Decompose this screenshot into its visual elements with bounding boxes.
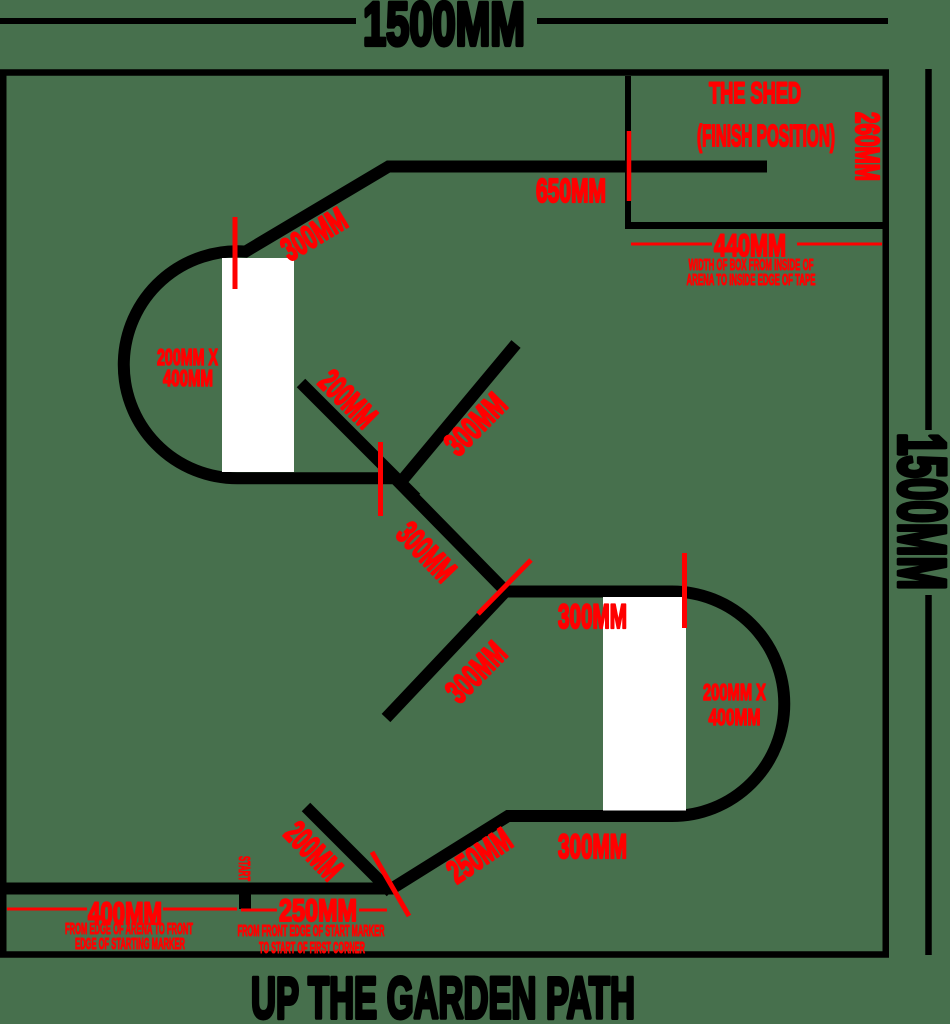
white garden bed right 200x400 [603, 597, 686, 811]
decoy branch 300MM down-left [386, 591, 506, 718]
red tick T4 right loop top [682, 553, 687, 628]
right dimension line lower segment [925, 595, 932, 955]
svg-text:THE SHED: THE SHED [709, 77, 801, 110]
dimension 440MM line right [797, 243, 882, 246]
main course path [0, 167, 784, 889]
svg-text:300MM: 300MM [558, 598, 627, 636]
svg-text:300MM: 300MM [558, 828, 627, 866]
svg-text:260MM: 260MM [848, 112, 885, 181]
svg-text:ARENA TO INSIDE EDGE OF TAPE: ARENA TO INSIDE EDGE OF TAPE [687, 272, 816, 289]
decoy branch stub 200MM lower [306, 807, 391, 892]
svg-text:200MM X: 200MM X [703, 679, 766, 705]
right dimension line upper segment [925, 69, 932, 430]
red tick T6 shed divider [627, 131, 632, 201]
svg-text:1500MM: 1500MM [884, 433, 950, 590]
top dimension line right segment [537, 18, 888, 24]
red tick T2 near junction 1 [378, 442, 383, 516]
dimension 400MM line left [7, 908, 87, 911]
svg-text:EDGE OF STARTING MARKER: EDGE OF STARTING MARKER [75, 936, 185, 953]
dimension 250MM line left [241, 909, 277, 912]
svg-text:START: START [235, 856, 252, 881]
dimension 250MM line right [359, 909, 387, 912]
svg-text:1500MM: 1500MM [363, 0, 525, 59]
decoy branch stub 200MM upper [301, 383, 416, 498]
red tick T3 at junction 2 [478, 560, 531, 614]
svg-text:(FINISH POSITION): (FINISH POSITION) [697, 118, 835, 153]
shed bottom line [625, 222, 889, 229]
dimension 440MM line left [631, 243, 712, 246]
top dimension line left segment [0, 18, 356, 24]
svg-text:650MM: 650MM [536, 172, 606, 209]
svg-text:400MM: 400MM [709, 704, 761, 730]
decoy branch 300MM up-right [400, 344, 516, 483]
svg-text:FROM FRONT EDGE OF START MARKE: FROM FRONT EDGE OF START MARKER [238, 923, 385, 940]
shed divider vertical line [625, 76, 631, 225]
red tick T5 bottom junction [372, 852, 409, 916]
svg-text:TO START OF FIRST CORNER: TO START OF FIRST CORNER [259, 940, 365, 957]
dimension 400MM line right [163, 908, 237, 911]
white garden bed left 200x400 [222, 258, 294, 472]
start marker stub [239, 890, 251, 909]
svg-text:UP THE GARDEN PATH: UP THE GARDEN PATH [251, 966, 635, 1024]
red tick T1 left loop top [233, 217, 238, 289]
svg-text:400MM: 400MM [163, 365, 213, 391]
